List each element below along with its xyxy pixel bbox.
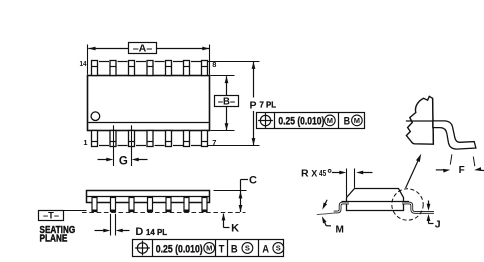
svg-text:B: B	[231, 243, 238, 255]
svg-text:7 PL: 7 PL	[260, 101, 277, 110]
svg-text:D: D	[135, 226, 143, 238]
svg-text:1: 1	[83, 138, 87, 147]
svg-text:A: A	[262, 243, 269, 255]
svg-text:–T–: –T–	[43, 211, 59, 222]
svg-text:F: F	[459, 165, 465, 176]
svg-text:B: B	[344, 116, 351, 128]
svg-text:X: X	[311, 168, 317, 178]
svg-text:PLANE: PLANE	[40, 233, 68, 245]
svg-text:M: M	[206, 244, 212, 253]
svg-text:R: R	[301, 167, 309, 179]
svg-text:0.25 (0.010): 0.25 (0.010)	[156, 243, 203, 255]
svg-text:45: 45	[319, 169, 327, 178]
svg-text:–B–: –B–	[218, 97, 236, 108]
svg-text:K: K	[231, 223, 239, 235]
svg-text:M: M	[336, 224, 344, 235]
svg-text:J: J	[435, 219, 441, 231]
svg-text:0.25 (0.010): 0.25 (0.010)	[278, 116, 324, 128]
svg-text:G: G	[119, 156, 128, 168]
svg-text:M: M	[354, 116, 360, 125]
svg-text:C: C	[249, 174, 257, 186]
svg-text:M: M	[327, 116, 333, 125]
svg-text:14: 14	[80, 59, 88, 68]
svg-text:–A–: –A–	[133, 44, 153, 55]
svg-text:S: S	[245, 244, 250, 253]
svg-text:P: P	[250, 100, 257, 112]
svg-text:14 PL: 14 PL	[146, 228, 167, 237]
svg-text:T: T	[219, 243, 225, 255]
svg-text:S: S	[276, 244, 281, 253]
